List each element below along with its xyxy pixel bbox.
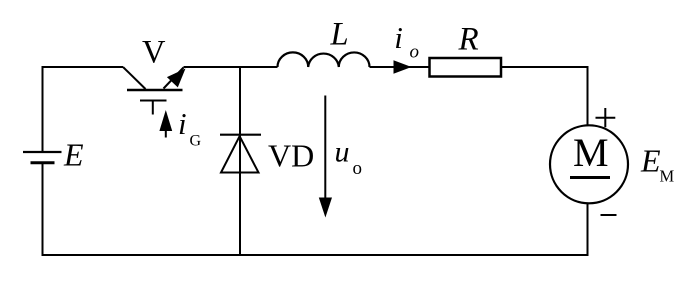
svg-text:G: G <box>190 133 202 150</box>
wire resistor to motor <box>502 67 588 125</box>
diode VD branch wire <box>239 67 241 255</box>
motor minus sign <box>601 214 617 216</box>
transistor V gate bar <box>140 100 167 102</box>
svg-text:M: M <box>573 130 609 175</box>
voltage arrow uo shaft <box>324 96 326 200</box>
transistor V collector slope <box>123 67 146 89</box>
diode VD triangle <box>221 136 259 172</box>
wire inductor to resistor <box>370 66 429 68</box>
svg-text:V: V <box>142 35 166 71</box>
wire top middle (V emitter to inductor, node with VD) <box>184 66 278 68</box>
svg-text:o: o <box>410 42 420 63</box>
gate current arrow iG shaft <box>165 128 167 138</box>
battery E long plate <box>23 151 62 153</box>
voltage arrow uo head <box>319 198 332 218</box>
svg-text:E: E <box>63 137 84 173</box>
transistor V gate stem <box>152 101 154 115</box>
svg-text:L: L <box>330 17 349 53</box>
svg-text:E: E <box>640 142 661 178</box>
svg-text:VD: VD <box>268 137 314 173</box>
svg-text:i: i <box>394 20 403 55</box>
svg-text:o: o <box>353 158 363 179</box>
wire motor to bottom rail <box>587 204 589 257</box>
transistor V base bar <box>127 89 183 92</box>
wire bottom rail <box>42 254 589 256</box>
transistor V emitter arrowhead <box>167 69 186 88</box>
svg-text:i: i <box>178 106 187 141</box>
inductor L coils <box>278 52 370 67</box>
svg-text:R: R <box>458 22 479 58</box>
svg-text:u: u <box>335 136 350 169</box>
resistor R box <box>430 58 502 77</box>
current arrow io head <box>394 60 412 73</box>
motor M circle <box>550 125 628 203</box>
wire left-bottom (E- to bottom rail) <box>42 164 44 257</box>
wire top-left (E+ to transistor V collector) <box>43 67 124 151</box>
battery E short plate <box>31 161 55 164</box>
diode VD cathode bar <box>220 134 261 136</box>
transistor V emitter line <box>164 68 184 89</box>
svg-text:M: M <box>660 166 675 185</box>
gate current arrow iG head <box>159 110 172 131</box>
motor plus sign <box>596 108 616 127</box>
motor M underline <box>570 176 610 179</box>
